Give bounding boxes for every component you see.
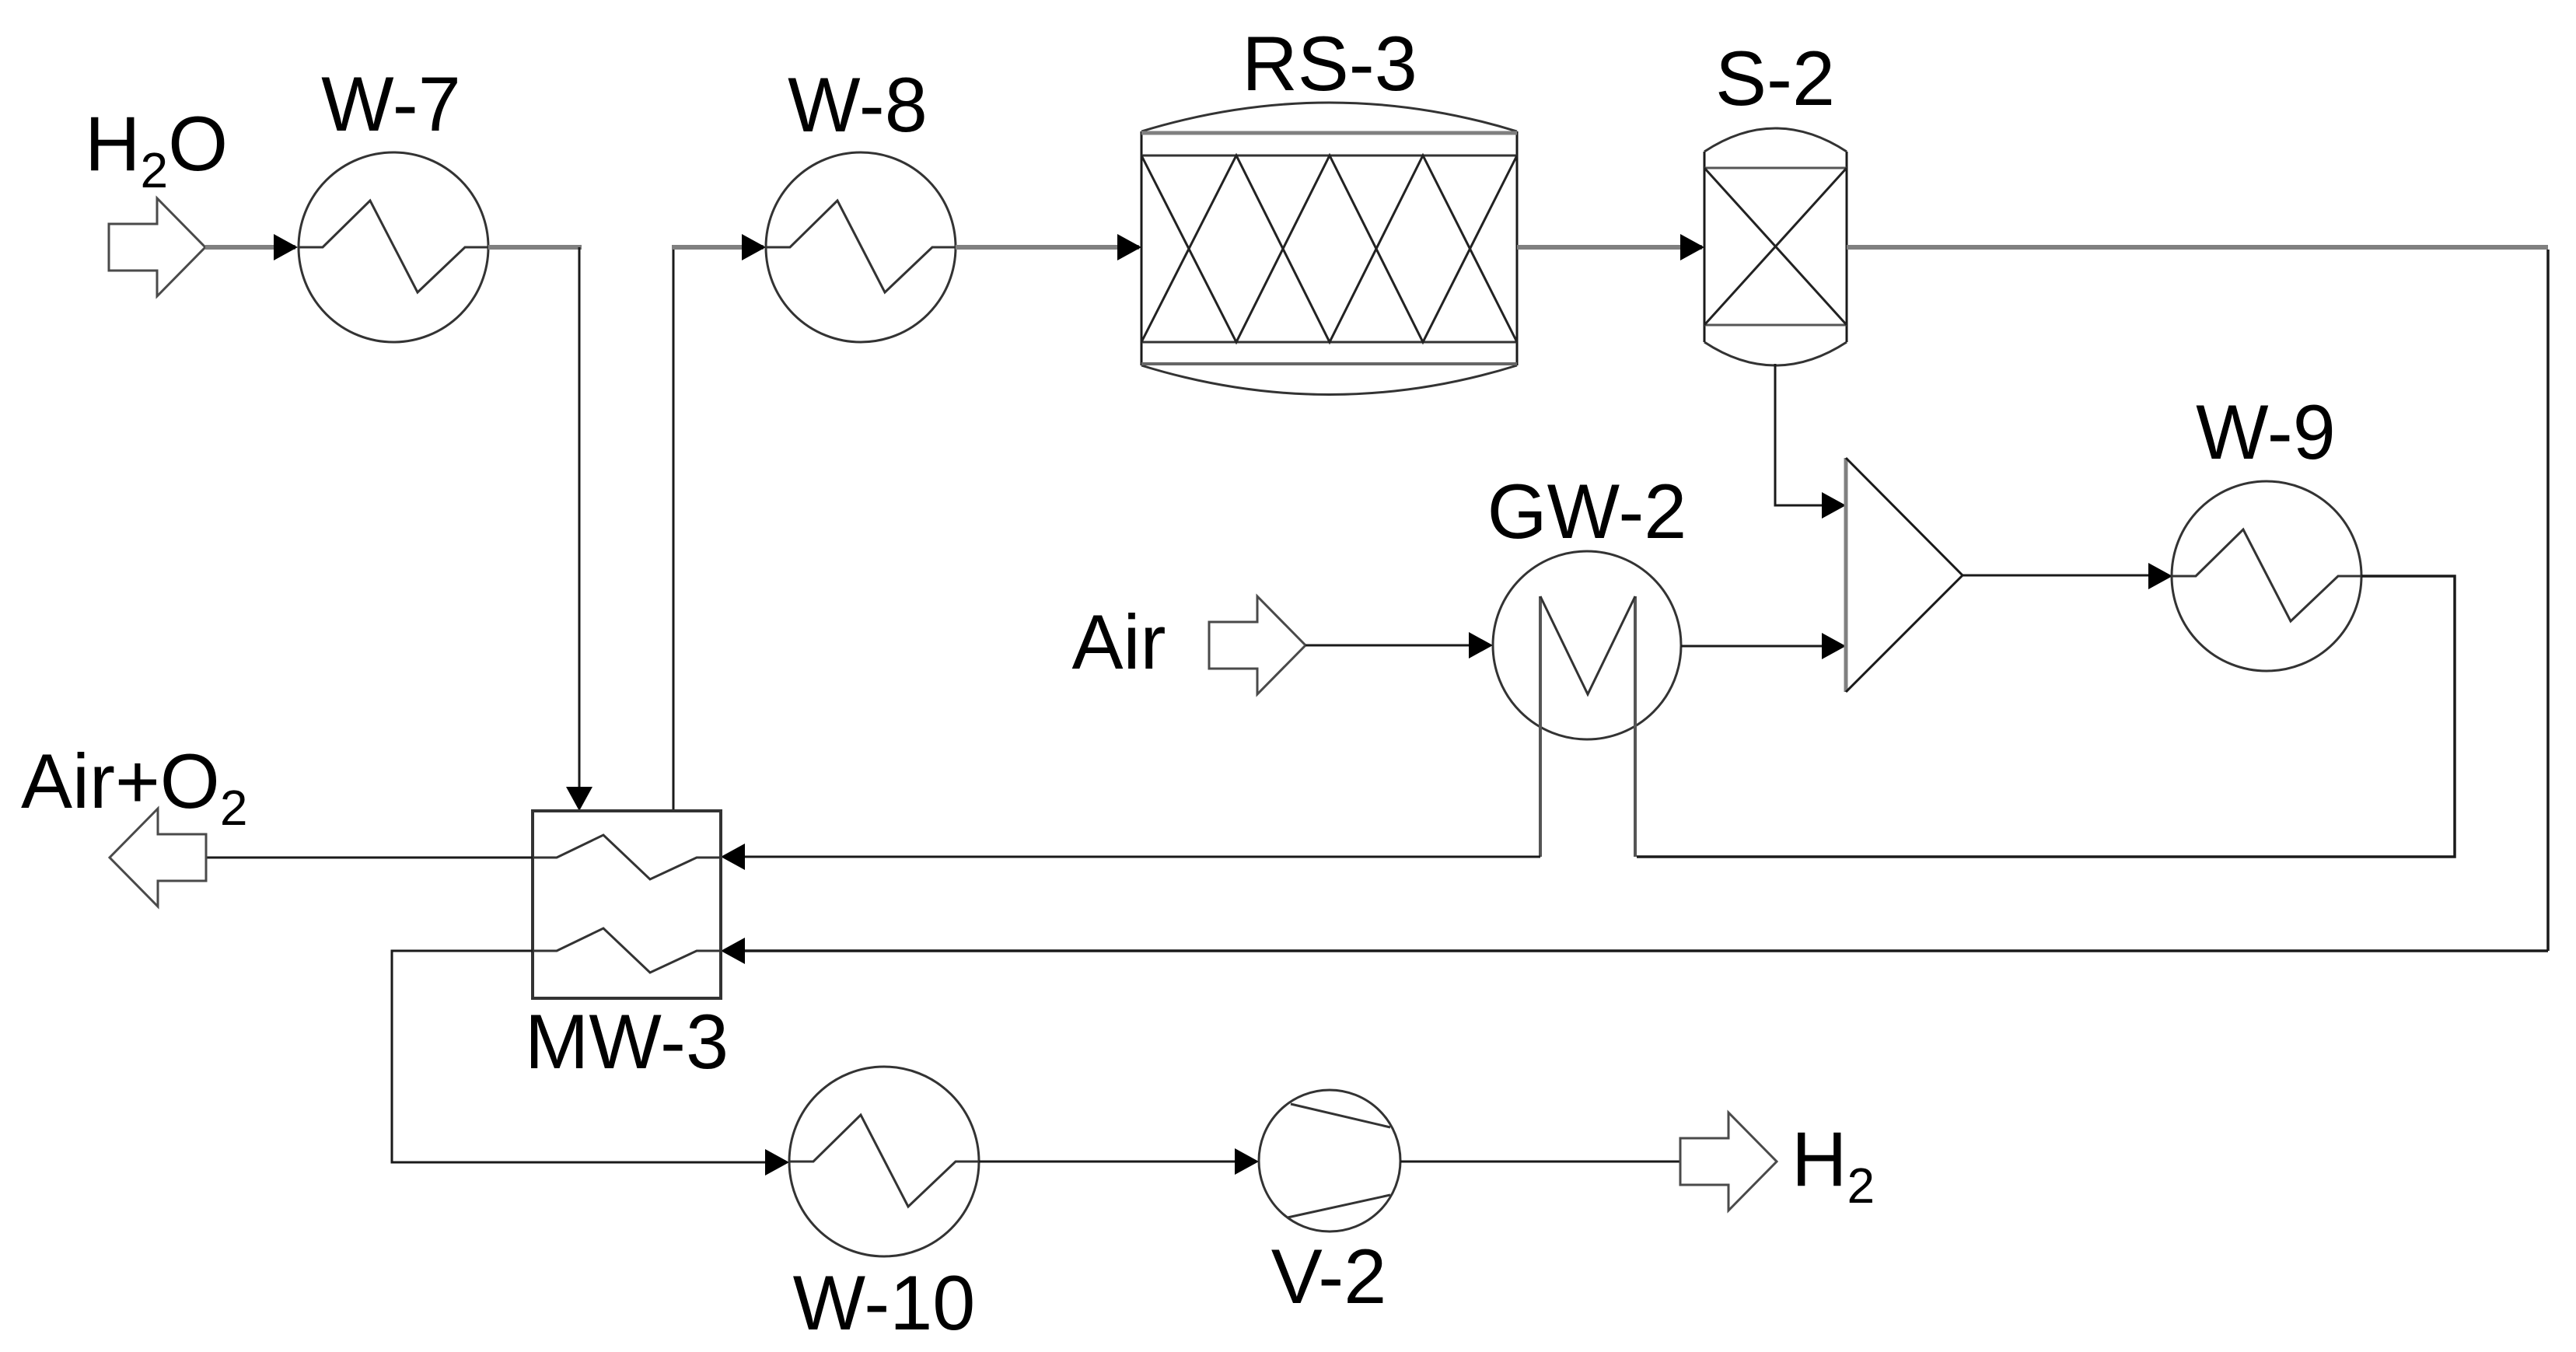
- H2O inlet block arrow: [109, 198, 205, 296]
- svg-text:V-2: V-2: [1271, 1233, 1387, 1319]
- wire branch corner to W-8: [672, 245, 764, 250]
- flow arrowhead into RS-3: [1117, 234, 1141, 260]
- svg-text:W-10: W-10: [793, 1259, 976, 1346]
- flow arrowhead into GW-2: [1469, 632, 1493, 659]
- separator vessel S-2: [1704, 128, 1847, 365]
- svg-text:MW-3: MW-3: [525, 998, 729, 1085]
- heat exchanger W-7: [299, 152, 488, 342]
- wire S-2 bottom drain to mixer: [1775, 364, 1823, 505]
- gas heater GW-2: [1493, 551, 1681, 857]
- wire mixer to W-9: [1963, 575, 2150, 577]
- wire W-10 to V-2: [979, 1161, 1236, 1163]
- wire W-9 out to upper return: [1637, 576, 2455, 857]
- wire MW-3 upper coil out to Air+O2 arrow: [206, 857, 533, 859]
- heat exchanger W-9: [2172, 481, 2361, 671]
- heat exchanger W-8: [766, 152, 956, 342]
- svg-text:W-8: W-8: [788, 61, 928, 148]
- H2 outlet block arrow: [1680, 1113, 1777, 1211]
- wire W-8 to RS-3: [956, 245, 1139, 250]
- reactor RS-3: [1141, 103, 1517, 395]
- Air+O2 outlet block arrow: [110, 809, 206, 907]
- flow arrowhead into S-2: [1680, 234, 1704, 260]
- flow arrowhead into MW-3 top: [566, 787, 592, 811]
- flow arrowhead into W-9: [2148, 563, 2172, 589]
- fan V-2: [1259, 1090, 1400, 1231]
- flow arrowhead into W-8: [742, 234, 766, 260]
- recuperator MW-3: [533, 811, 721, 998]
- svg-text:RS-3: RS-3: [1242, 20, 1417, 107]
- mixer: [1844, 458, 1848, 692]
- svg-text:GW-2: GW-2: [1487, 468, 1687, 554]
- flow arrowhead into W-10: [765, 1149, 789, 1176]
- wire vertical down to MW-3 top: [578, 247, 581, 788]
- svg-text:W-7: W-7: [321, 61, 461, 147]
- wire W-7 to corner above MW-3: [488, 245, 582, 250]
- flow arrowhead into mixer upper inlet: [1822, 492, 1846, 519]
- wire MW-3 lower coil out to W-10: [392, 951, 767, 1162]
- flow arrowhead into W-7: [274, 234, 298, 260]
- wire S-2 to top-right corner: [1847, 245, 2548, 250]
- wire H2O arrow to W-7: [205, 245, 295, 250]
- svg-text:S-2: S-2: [1715, 35, 1835, 121]
- wire RS-3 to S-2: [1517, 245, 1702, 250]
- flow arrowhead into V-2: [1235, 1148, 1259, 1175]
- wire upper return from GW-2 coil to MW-3: [743, 856, 1540, 858]
- flow arrowhead into MW-3 lower coil: [721, 938, 745, 964]
- wire Air arrow to GW-2: [1305, 645, 1470, 647]
- wire MW-3 top up to W-8 branch: [673, 247, 675, 811]
- wire V-2 to H2 arrow: [1400, 1161, 1680, 1163]
- flow arrowhead into mixer lower inlet: [1822, 633, 1846, 659]
- svg-text:W-9: W-9: [2196, 389, 2336, 475]
- Air inlet block arrow: [1209, 596, 1305, 694]
- wire right edge vertical down: [2546, 250, 2550, 951]
- flow arrowhead into MW-3 upper coil: [721, 844, 745, 870]
- svg-text:Air+O2: Air+O2: [21, 738, 247, 836]
- heat exchanger W-10: [789, 1067, 979, 1256]
- svg-text:Air: Air: [1072, 599, 1166, 685]
- wire lower return to MW-3: [743, 949, 2548, 952]
- wire GW-2 to mixer lower inlet: [1681, 645, 1823, 648]
